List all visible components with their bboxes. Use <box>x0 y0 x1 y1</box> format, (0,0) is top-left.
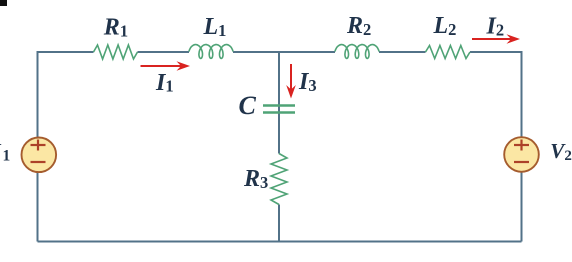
wire (L1 to middle junction) <box>233 51 279 53</box>
wire (middle junction to R2) <box>279 51 335 53</box>
svg-text:1: 1 <box>3 148 11 165</box>
wire (right branch, through V2) <box>521 52 523 242</box>
stray black mark (top-left corner of scan) <box>0 0 7 6</box>
svg-text:C: C <box>239 91 257 120</box>
svg-text:L2: L2 <box>433 13 457 39</box>
wire (between R1 and L1) <box>138 51 190 53</box>
wire (between R2 and L2) <box>379 51 426 53</box>
wire (L2 to top-right corner) <box>470 52 522 58</box>
current arrow I3 <box>290 64 292 93</box>
resistor R1 <box>94 45 138 59</box>
inductor-symbol component R2 <box>335 45 379 59</box>
svg-text:R3: R3 <box>243 166 268 192</box>
inductor L1 <box>189 45 233 59</box>
svg-text:I1: I1 <box>155 70 174 96</box>
voltage source V1 <box>22 138 57 173</box>
wire (left branch, through V1) <box>37 52 39 242</box>
svg-text:R1: R1 <box>103 15 128 41</box>
wire (bottom rail) <box>38 241 522 243</box>
current arrow I1 <box>141 65 185 67</box>
svg-text:I3: I3 <box>298 69 317 95</box>
svg-text:V2: V2 <box>550 139 572 164</box>
current arrow I2 <box>472 38 514 40</box>
svg-text:R2: R2 <box>346 13 371 39</box>
resistor-symbol component L2 <box>426 46 471 59</box>
voltage source V2 <box>504 137 539 172</box>
resistor R3 <box>271 154 287 205</box>
capacitor C <box>263 106 295 113</box>
svg-text:I2: I2 <box>486 14 505 40</box>
svg-text:L1: L1 <box>203 14 227 40</box>
wire (middle branch: junction down through C and R3 to bottom) <box>278 52 280 154</box>
wire (top-left segment) <box>38 52 94 58</box>
